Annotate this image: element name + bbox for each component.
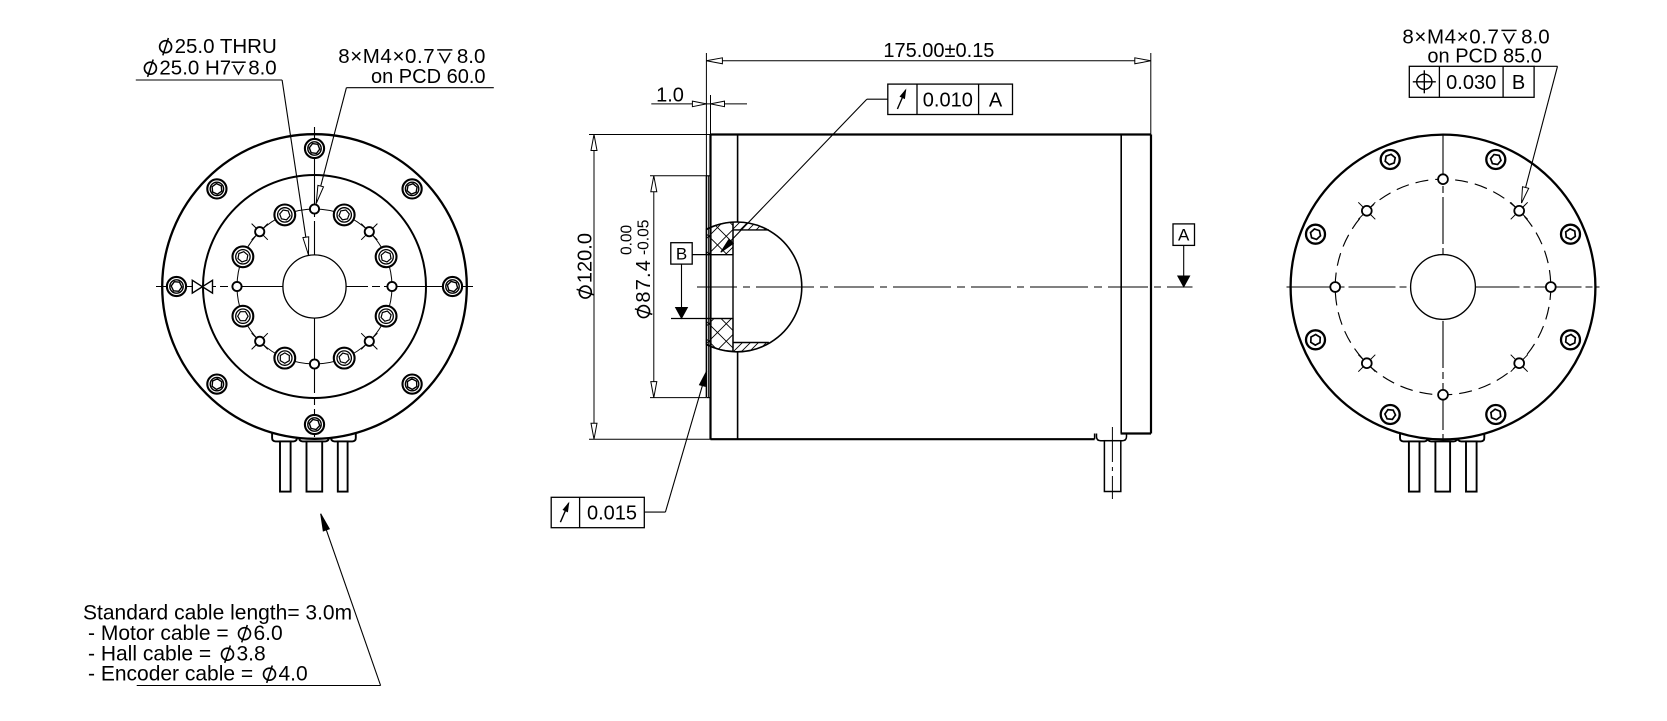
- svg-text:0.010: 0.010: [923, 89, 973, 111]
- svg-text:25.0 THRU: 25.0 THRU: [175, 35, 277, 58]
- svg-text:0.030: 0.030: [1446, 72, 1496, 94]
- svg-text:A: A: [989, 89, 1003, 111]
- svg-text:8.0: 8.0: [248, 57, 277, 80]
- svg-text:0.015: 0.015: [587, 503, 637, 525]
- svg-text:- Encoder cable =: - Encoder cable =: [88, 663, 253, 686]
- svg-text:87.4: 87.4: [633, 259, 655, 303]
- svg-text:25.0 H7: 25.0 H7: [159, 57, 231, 80]
- svg-text:175.00±0.15: 175.00±0.15: [883, 40, 994, 62]
- svg-text:1.0: 1.0: [656, 85, 684, 107]
- svg-text:-0.05: -0.05: [636, 220, 653, 255]
- svg-text:B: B: [1512, 72, 1525, 94]
- svg-text:on PCD 60.0: on PCD 60.0: [371, 66, 486, 88]
- svg-text:on PCD 85.0: on PCD 85.0: [1427, 46, 1542, 68]
- svg-text:0.00: 0.00: [619, 224, 636, 255]
- svg-text:A: A: [1178, 226, 1190, 245]
- svg-text:120.0: 120.0: [575, 233, 597, 283]
- svg-text:B: B: [676, 245, 687, 264]
- svg-text:8×M4×0.7: 8×M4×0.7: [338, 45, 435, 68]
- svg-text:4.0: 4.0: [279, 663, 308, 686]
- svg-text:8.0: 8.0: [457, 45, 486, 68]
